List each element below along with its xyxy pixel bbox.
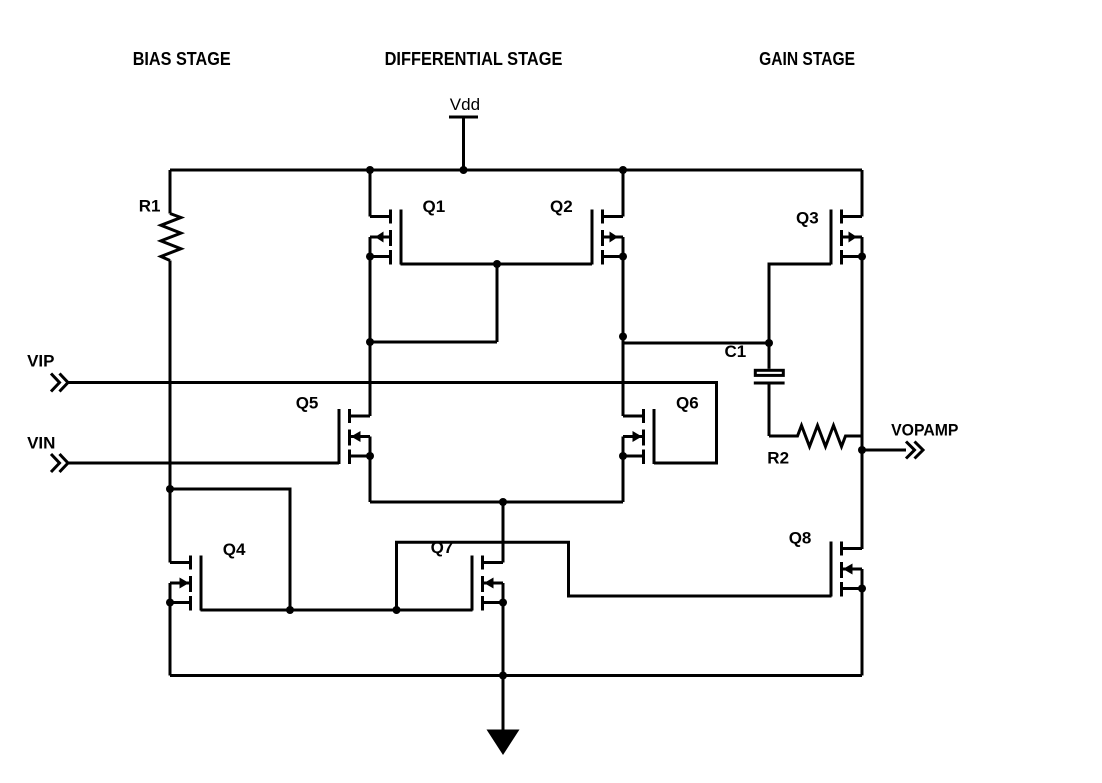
wire C1 bottom stem [768, 385, 771, 437]
junction toprail-Q1 [366, 166, 374, 174]
wire Q2 drain to Q6 drain [622, 257, 625, 417]
wire Q1 drain to Q5 drain [369, 257, 372, 417]
wire left rail upper (R1 top lead) [169, 170, 172, 214]
junction bias riser [393, 606, 401, 614]
svg-text:Q5: Q5 [296, 394, 319, 413]
junction Q2 drain / first-stage output node [619, 333, 627, 341]
port VOPAMP chevron [906, 442, 915, 459]
wire Q1-Q2 gate tie [401, 263, 593, 266]
svg-text:DIFFERENTIAL STAGE: DIFFERENTIAL STAGE [385, 49, 563, 69]
transistor Q3 (PMOS) [831, 210, 866, 265]
wire ground stem [502, 676, 505, 730]
svg-text:R2: R2 [767, 449, 789, 468]
wire bias bus to Q8 gate [397, 542, 832, 610]
svg-text:BIAS STAGE: BIAS STAGE [133, 49, 231, 69]
wire left rail lower (Q4 source to ground rail) [169, 603, 172, 676]
wire right rail mid (Q3 drain to Q8 drain) [861, 257, 864, 550]
wire Q1 source drop [369, 170, 372, 217]
transistor Q8 (NMOS) [831, 542, 866, 597]
junction Q1 drain / mirror gate tie [366, 338, 374, 346]
wire left rail mid (R1 to Q4 drain) [169, 261, 172, 563]
capacitor C1 bottom plate [754, 382, 785, 385]
wire Vdd stem [462, 117, 465, 170]
svg-text:Q2: Q2 [550, 197, 573, 216]
Vdd supply bar [449, 116, 478, 119]
svg-text:Q3: Q3 [796, 209, 819, 228]
port VIN chevron [51, 454, 60, 472]
svg-text:Q8: Q8 [789, 528, 812, 547]
svg-text:C1: C1 [725, 342, 747, 361]
wire Q6 source drop [622, 456, 625, 502]
transistor Q4 (NMOS) [166, 556, 201, 611]
transistor Q6 (NMOS) [619, 409, 654, 464]
wire bottom ground rail [170, 674, 862, 677]
junction Vdd-toprail [460, 166, 468, 174]
wire gate tie to Q1 drain [370, 341, 497, 344]
resistor R1 [161, 214, 181, 261]
wire Q4-Q7 gate bus [201, 609, 473, 612]
transistor Q7 (NMOS) [472, 556, 507, 611]
junction C1 top node [765, 339, 773, 347]
wire C1 top stem [768, 343, 771, 369]
svg-text:R1: R1 [139, 196, 161, 215]
junction Q4 frame to gate bus [286, 606, 294, 614]
svg-text:Vdd: Vdd [450, 95, 480, 114]
junction Q4 diode frame tap [166, 485, 174, 493]
wire gate tie riser [496, 264, 499, 342]
junction gate tie riser [493, 260, 501, 268]
svg-text:VOPAMP: VOPAMP [891, 420, 958, 439]
svg-text:VIN: VIN [27, 433, 55, 452]
ground symbol [487, 730, 520, 756]
transistor Q1 (PMOS) [366, 210, 401, 265]
wire Q2 source drop [622, 170, 625, 217]
wire Q7 source drop [502, 603, 505, 676]
transistor Q5 (NMOS) [339, 409, 374, 464]
junction ground rail tap [499, 672, 507, 680]
port VIP chevron [51, 374, 60, 392]
wire Q5 source drop [369, 456, 372, 502]
transistor Q2 (PMOS) [592, 210, 627, 265]
junction VOPAMP tap [858, 446, 866, 454]
svg-text:Q1: Q1 [423, 197, 446, 216]
junction tail node [499, 498, 507, 506]
wire Q4 diode frame [170, 489, 290, 610]
wire VIN to Q5 gate [68, 462, 339, 465]
svg-text:GAIN STAGE: GAIN STAGE [759, 49, 855, 69]
wire VOPAMP lead [862, 449, 906, 452]
wire tail to Q7 drain [502, 502, 505, 563]
svg-text:VIP: VIP [27, 352, 54, 371]
wire tail bus [370, 501, 623, 504]
wire top rail Vdd net [170, 169, 862, 172]
wire Q3 gate lead [769, 264, 831, 343]
resistor R2 [769, 426, 862, 447]
svg-text:Q4: Q4 [223, 540, 246, 559]
capacitor C1 top plate [755, 370, 783, 375]
svg-text:Q6: Q6 [676, 394, 699, 413]
junction toprail-Q2 [619, 166, 627, 174]
wire output tap to C1 [623, 342, 769, 345]
wire right rail upper (toprail to Q3 source) [861, 170, 864, 217]
wire right rail lower (Q8 source to ground rail) [861, 589, 864, 676]
wire VIP to Q6 gate [68, 383, 717, 464]
